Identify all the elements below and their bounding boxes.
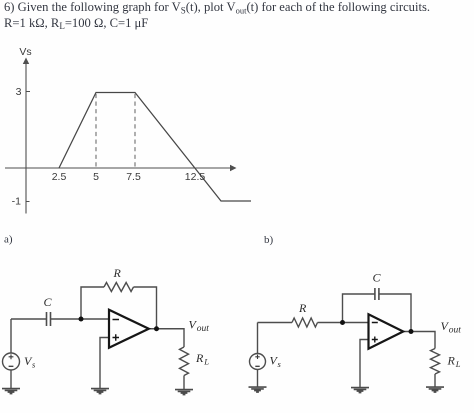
svg-text:5: 5 xyxy=(93,171,99,183)
svg-text:R: R xyxy=(113,266,122,280)
svg-text:12.5: 12.5 xyxy=(185,171,206,183)
svg-text:R=1 kΩ, RL=100 Ω, C=1 μF: R=1 kΩ, RL=100 Ω, C=1 μF xyxy=(4,16,148,31)
svg-text:R: R xyxy=(447,354,456,368)
svg-text:a): a) xyxy=(4,234,13,246)
svg-text:3: 3 xyxy=(16,86,22,98)
svg-text:out: out xyxy=(449,326,462,336)
svg-text:C: C xyxy=(44,295,53,309)
svg-text:L: L xyxy=(203,357,209,367)
svg-text:Vs: Vs xyxy=(19,46,31,58)
svg-text:out: out xyxy=(197,324,210,334)
svg-text:C: C xyxy=(373,271,382,285)
svg-text:-1: -1 xyxy=(12,195,21,207)
svg-text:L: L xyxy=(455,359,461,369)
svg-text:2.5: 2.5 xyxy=(52,171,67,183)
svg-text:R: R xyxy=(298,301,307,315)
svg-text:6) Given the following graph f: 6) Given the following graph for VS(t), … xyxy=(4,0,430,15)
svg-text:b): b) xyxy=(264,234,274,246)
svg-text:7.5: 7.5 xyxy=(126,171,141,183)
svg-text:R: R xyxy=(195,351,204,365)
